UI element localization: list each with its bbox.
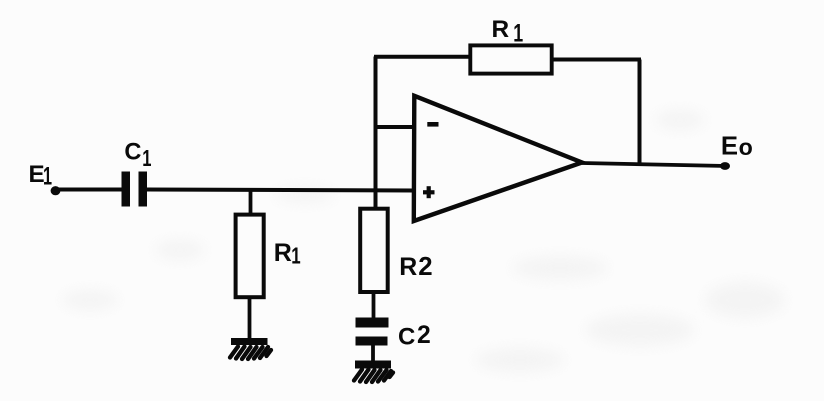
svg-text:R: R (274, 239, 292, 267)
svg-text:2: 2 (418, 253, 432, 281)
svg-text:2: 2 (417, 322, 431, 349)
svg-text:1: 1 (142, 146, 151, 171)
svg-text:1: 1 (43, 163, 52, 190)
svg-text:R: R (399, 253, 417, 281)
svg-text:1: 1 (513, 19, 523, 48)
svg-text:E: E (721, 132, 738, 160)
svg-text:1: 1 (291, 243, 300, 269)
svg-text:R: R (492, 16, 510, 43)
svg-text:C: C (398, 323, 415, 350)
svg-text:o: o (739, 134, 753, 160)
svg-text:C: C (124, 139, 141, 165)
svg-text:E: E (29, 161, 45, 188)
